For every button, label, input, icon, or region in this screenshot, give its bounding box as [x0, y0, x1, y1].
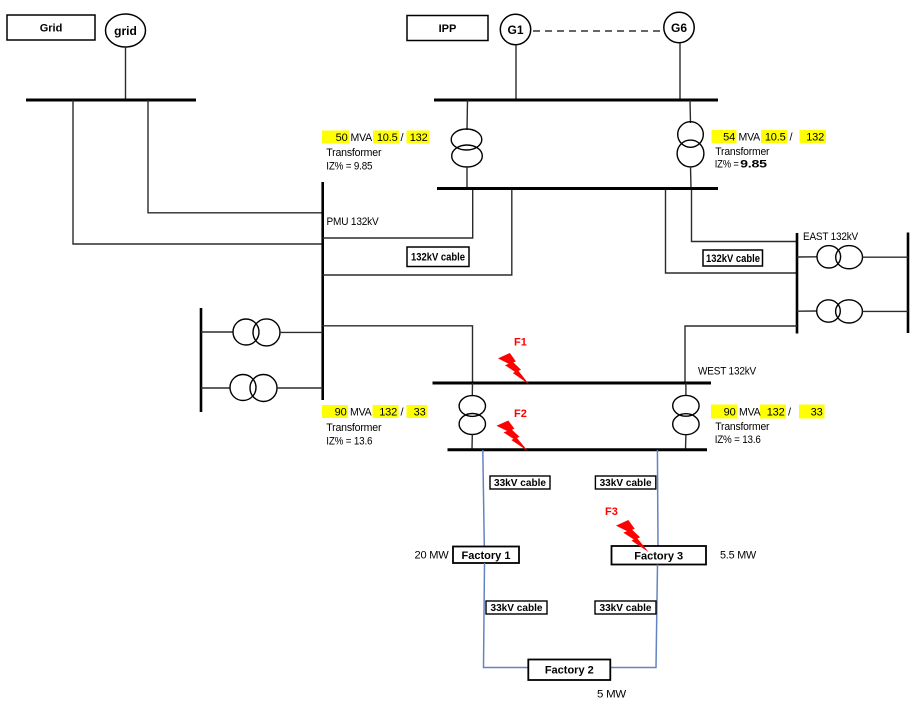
transformer T4 EAST lower	[817, 300, 863, 323]
wire transformer T2 to IPP bus lower	[690, 167, 693, 188]
svg-text:90: 90	[335, 407, 347, 419]
svg-text:20 MW: 20 MW	[415, 550, 450, 562]
wire transformer T1 to IPP bus lower	[466, 167, 468, 188]
wire transformer T4 to EAST right bus	[862, 310, 908, 312]
wire G6 to IPP bus	[679, 43, 681, 100]
svg-text:132: 132	[806, 132, 824, 144]
wire left bus to transformer T5	[201, 331, 233, 333]
label box 132kV cable left	[407, 247, 469, 267]
svg-text:MVA: MVA	[351, 132, 373, 144]
svg-text:Transformer: Transformer	[326, 147, 382, 159]
bus left substation (vertical)	[200, 308, 203, 412]
bus 33kV	[448, 448, 708, 451]
svg-text:MVA: MVA	[739, 407, 761, 419]
svg-text:Factory 1: Factory 1	[462, 550, 511, 562]
svg-text:5 MW: 5 MW	[597, 689, 627, 701]
generator G6	[664, 12, 694, 42]
cable Factory 1 to Factory 2	[484, 563, 529, 668]
svg-text:F2: F2	[514, 408, 527, 420]
fault F1 lightning bolt	[498, 353, 529, 384]
svg-text:MVA: MVA	[350, 407, 372, 419]
wire EAST bus to WEST bus	[685, 326, 797, 383]
svg-text:F3: F3	[605, 506, 618, 518]
svg-text:50: 50	[336, 132, 348, 144]
fault F2 lightning bolt	[497, 421, 529, 452]
fault F3 lightning bolt	[616, 520, 649, 552]
wire transformer T6 to PMU bus	[277, 387, 323, 389]
svg-text:Grid: Grid	[40, 23, 63, 35]
svg-text:IZ% = 13.6: IZ% = 13.6	[326, 436, 372, 448]
label box 33kV cable top-right	[595, 476, 655, 489]
svg-text:5.5 MW: 5.5 MW	[720, 550, 757, 562]
wire PMU bus to WEST bus	[323, 326, 473, 383]
wire IPP lower bus to EAST cable 1	[692, 190, 798, 242]
svg-text:MVA: MVA	[739, 132, 761, 144]
svg-text:132: 132	[410, 132, 428, 144]
wire grid to grid bus	[125, 47, 127, 100]
IPP bus upper	[434, 99, 718, 102]
cable Factory 3 to Factory 2	[610, 565, 657, 668]
svg-text:33kV cable: 33kV cable	[491, 603, 543, 614]
label box 33kV cable bottom-left	[486, 601, 547, 614]
svg-text:IZ% = 13.6: IZ% = 13.6	[715, 434, 761, 446]
svg-text:PMU 132kV: PMU 132kV	[327, 216, 380, 228]
wire IPP lower bus to PMU cable 2	[323, 190, 512, 275]
wire EAST bus to transformer T3	[797, 256, 817, 258]
svg-text:9.85: 9.85	[740, 159, 767, 171]
svg-text:33kV cable: 33kV cable	[600, 478, 652, 489]
transformer T1 50 MVA	[451, 129, 482, 167]
generator G1	[500, 14, 530, 44]
svg-text:132kV cable: 132kV cable	[706, 253, 760, 265]
load box Factory 1	[453, 547, 519, 564]
transformer T6 left lower	[230, 375, 277, 402]
svg-text:F1: F1	[514, 337, 527, 349]
transformer T5 left upper	[233, 319, 280, 346]
svg-text:IZ% = 9.85: IZ% = 9.85	[326, 161, 372, 173]
bus EAST 132kV left	[796, 233, 799, 334]
svg-text:Factory 2: Factory 2	[545, 665, 594, 677]
bus PMU 132kV (vertical)	[321, 182, 324, 400]
wire EAST bus to transformer T4	[797, 310, 817, 312]
wire G1 to IPP bus	[515, 45, 517, 100]
wire left bus to transformer T6	[201, 387, 230, 389]
load box Factory 2	[528, 660, 610, 681]
label 50 MVA 10.5 / 132	[322, 131, 430, 145]
label box 33kV cable bottom-right	[595, 601, 656, 614]
svg-text:33: 33	[811, 407, 823, 419]
IPP bus lower	[437, 187, 718, 190]
wire transformer T7 to 33kV bus	[471, 435, 473, 450]
grid bus (top-left horizontal)	[26, 99, 196, 102]
svg-text:132: 132	[767, 407, 785, 419]
wire IPP bus to transformer T1	[466, 100, 469, 130]
label 54 MVA 10.5 / 132	[712, 130, 827, 144]
svg-text:132kV cable: 132kV cable	[411, 252, 465, 264]
wire transformer T3 to EAST right bus	[863, 256, 909, 258]
cable 33kV to Factory 3	[656, 450, 659, 546]
svg-text:33: 33	[414, 407, 426, 419]
label 90 MVA 132 / 33 right	[711, 405, 825, 419]
svg-text:Factory 3: Factory 3	[634, 551, 683, 563]
label 90 MVA 132 / 33 left	[322, 405, 427, 419]
transformer T2 54 MVA	[677, 122, 704, 167]
transformer T8 WEST right 90 MVA	[673, 395, 699, 434]
wire IPP lower bus to EAST cable 2	[666, 190, 798, 273]
cable 33kV to Factory 1	[483, 450, 485, 547]
label box IPP	[407, 16, 488, 41]
svg-text:90: 90	[724, 407, 736, 419]
svg-text:Transformer: Transformer	[326, 422, 382, 434]
load box Factory 3	[612, 546, 707, 565]
svg-text:54: 54	[723, 132, 735, 144]
svg-text:10.5: 10.5	[765, 132, 786, 144]
svg-text:10.5: 10.5	[377, 132, 398, 144]
svg-text:Transformer: Transformer	[715, 421, 769, 433]
wire IPP lower bus to PMU cable 1	[323, 190, 473, 238]
svg-text:G1: G1	[507, 23, 523, 37]
transformer T7 WEST left 90 MVA	[459, 396, 485, 435]
transformer T3 EAST upper	[817, 246, 862, 269]
wire IPP bus to transformer T2	[689, 100, 692, 123]
bus WEST 132kV	[433, 382, 712, 385]
label box Grid	[7, 15, 95, 40]
wire transformer T5 to PMU bus	[280, 331, 323, 333]
bus EAST right	[907, 233, 910, 334]
svg-text:Transformer: Transformer	[715, 146, 769, 158]
svg-text:IPP: IPP	[439, 23, 457, 35]
svg-text:WEST 132kV: WEST 132kV	[698, 366, 757, 378]
svg-text:EAST 132kV: EAST 132kV	[803, 231, 859, 243]
wire WEST bus to transformer T7	[471, 383, 473, 396]
svg-text:132: 132	[379, 407, 397, 419]
svg-text:33kV cable: 33kV cable	[600, 603, 652, 614]
wire transformer T8 to 33kV bus	[685, 435, 687, 450]
wire grid bus drop right	[148, 100, 323, 213]
svg-text:G6: G6	[671, 21, 687, 35]
generator grid	[106, 14, 146, 47]
label box 132kV cable right	[703, 250, 763, 266]
svg-text:33kV cable: 33kV cable	[494, 478, 546, 489]
label box 33kV cable top-left	[490, 476, 550, 489]
dashed link G1 to G6	[533, 30, 661, 32]
svg-text:IZ% =: IZ% =	[715, 159, 739, 171]
wire grid bus drop left	[73, 100, 323, 244]
wire WEST bus to transformer T8	[685, 383, 687, 396]
svg-text:grid: grid	[114, 24, 137, 38]
